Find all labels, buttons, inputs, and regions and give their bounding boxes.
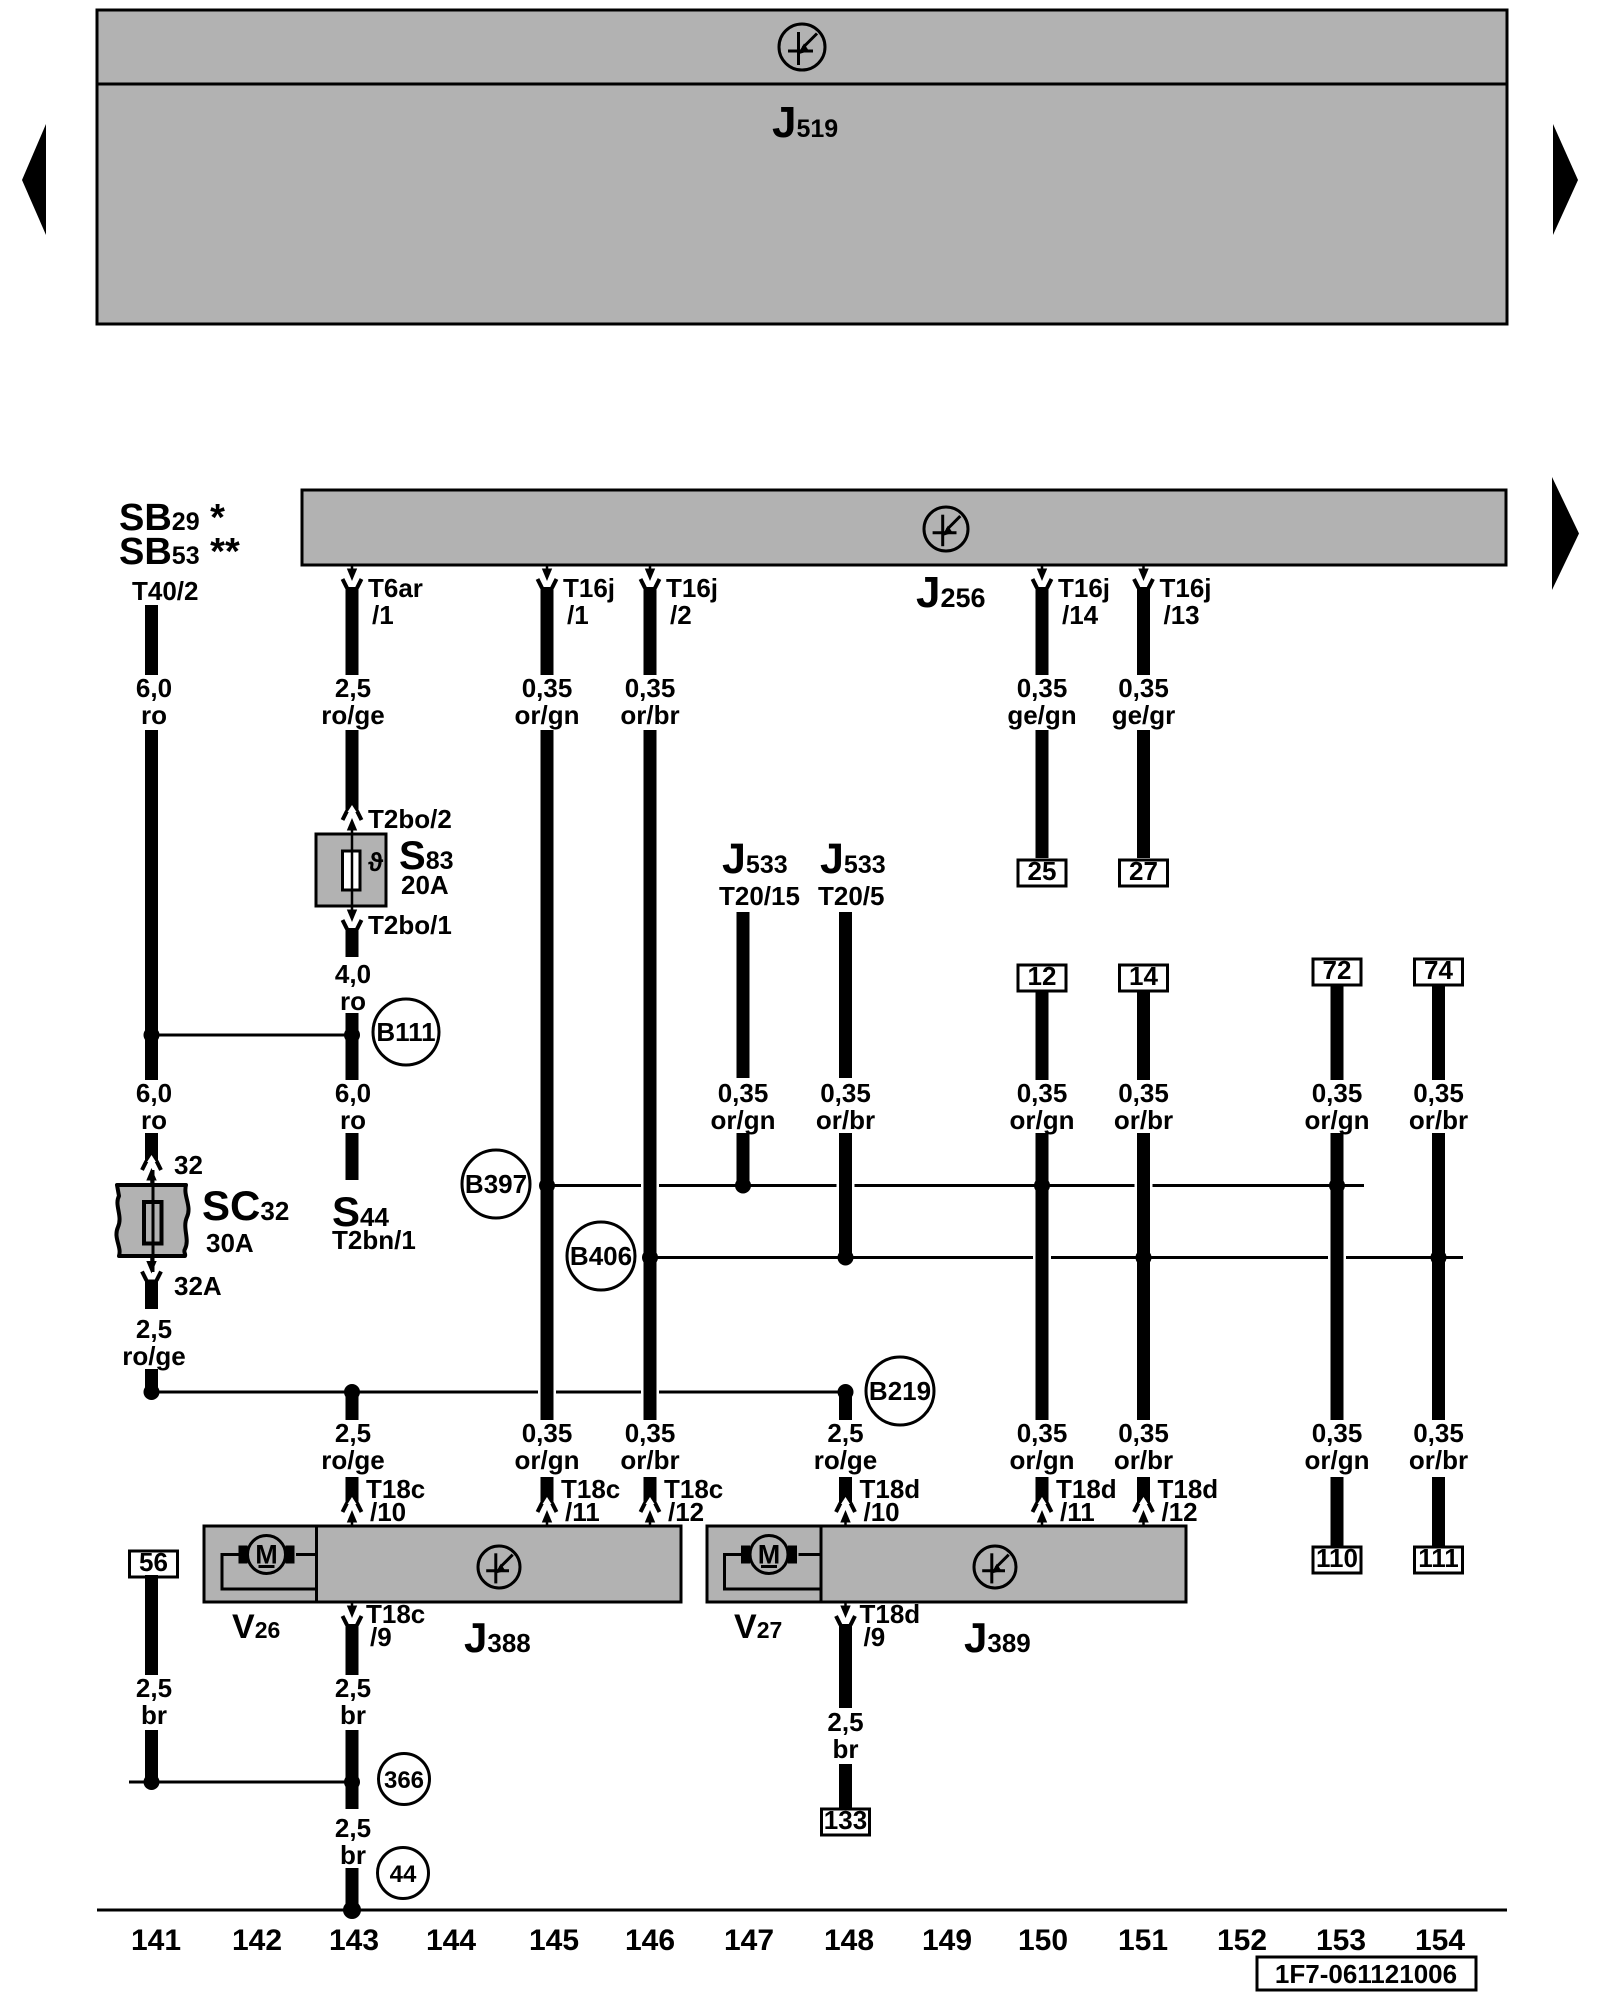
svg-text:/1: /1 xyxy=(567,600,589,630)
wire link to B111 xyxy=(152,1034,353,1037)
svg-text:149: 149 xyxy=(922,1924,972,1957)
wire 0,35 or/br long to J388 xyxy=(644,730,657,1420)
svg-text:/14: /14 xyxy=(1062,600,1099,630)
svg-text:0,35: 0,35 xyxy=(718,1078,769,1108)
svg-text:4,0: 4,0 xyxy=(335,959,371,989)
connector T18c/12 at J388 xyxy=(641,1497,660,1526)
junction on B406 at 74 wire xyxy=(1431,1250,1447,1266)
svg-text:/13: /13 xyxy=(1164,600,1200,630)
wire 0,35 or/br from T16j/2 xyxy=(644,587,657,675)
svg-text:ge/gr: ge/gr xyxy=(1112,700,1176,730)
control unit J519 box xyxy=(97,10,1507,324)
svg-text:/9: /9 xyxy=(370,1622,392,1652)
svg-text:0,35: 0,35 xyxy=(1413,1418,1464,1448)
svg-text:br: br xyxy=(340,1700,366,1730)
connector T6ar/1 at J256 xyxy=(343,565,362,594)
svg-text:146: 146 xyxy=(625,1924,675,1957)
svg-text:/10: /10 xyxy=(370,1497,406,1527)
junction on B406 at or/br wire xyxy=(1136,1250,1152,1266)
svg-text:J256: J256 xyxy=(916,568,986,617)
wire 2,5 ro/ge from T6ar/1 xyxy=(346,587,359,675)
connector T16j/2 at J256 xyxy=(641,565,660,594)
wire link B406 (or/br) xyxy=(650,1256,1033,1259)
connector 32 at SC32 xyxy=(142,1155,161,1184)
junction on B219 right xyxy=(838,1384,854,1400)
svg-text:br: br xyxy=(340,1840,366,1870)
control unit J256 box xyxy=(302,490,1506,565)
connector T18c/9 at J388 xyxy=(343,1602,362,1631)
wire or/br from terminal 14 xyxy=(1137,991,1150,1080)
wire 2,5 ro/ge to S83 xyxy=(346,730,359,812)
connector T16j/1 at J256 xyxy=(538,565,557,594)
wire or/br from terminal 74 xyxy=(1432,984,1445,1080)
svg-text:ro/ge: ro/ge xyxy=(321,700,385,730)
svg-text:or/br: or/br xyxy=(1114,1105,1173,1135)
svg-text:or/br: or/br xyxy=(620,700,679,730)
junction on 366 line right xyxy=(344,1774,360,1790)
svg-text:2,5: 2,5 xyxy=(136,1673,172,1703)
terminal box 72 xyxy=(1313,955,1361,985)
svg-text:ro: ro xyxy=(141,1105,167,1135)
internal connection symbol in J519 xyxy=(779,24,825,70)
svg-text:0,35: 0,35 xyxy=(1118,1418,1169,1448)
svg-text:0,35: 0,35 xyxy=(522,673,573,703)
page arrow right middle xyxy=(1552,477,1579,590)
wire or/br into terminal 111 xyxy=(1432,1477,1445,1547)
svg-text:or/gn: or/gn xyxy=(711,1105,776,1135)
svg-text:ro: ro xyxy=(340,986,366,1016)
svg-text:/12: /12 xyxy=(668,1497,704,1527)
motor V26 symbol xyxy=(239,1536,295,1574)
svg-text:T16j: T16j xyxy=(1160,573,1212,603)
svg-text:/11: /11 xyxy=(1060,1497,1095,1527)
svg-text:V27: V27 xyxy=(734,1608,782,1646)
svg-text:141: 141 xyxy=(131,1924,181,1957)
svg-text:2,5: 2,5 xyxy=(335,1813,371,1843)
svg-text:/11: /11 xyxy=(565,1497,600,1527)
svg-text:72: 72 xyxy=(1323,955,1352,985)
terminal box 14 xyxy=(1120,961,1168,991)
internal connection symbol in J388 xyxy=(478,1546,520,1588)
wire or/br through B406 to J389 xyxy=(1137,1133,1150,1420)
junction on B219 left xyxy=(144,1384,160,1400)
wire 0,35 ge/gr from T16j/13 xyxy=(1137,587,1150,675)
wire 2,5 ro/ge from B219 xyxy=(346,1392,359,1420)
svg-text:/10: /10 xyxy=(864,1497,900,1527)
junction node on B111 line left xyxy=(144,1027,160,1043)
svg-text:153: 153 xyxy=(1316,1924,1366,1957)
wire stub below SC32 xyxy=(145,1280,158,1310)
wire link B397 (or/gn) xyxy=(547,1184,641,1187)
svg-text:br: br xyxy=(833,1734,859,1764)
svg-text:25: 25 xyxy=(1028,856,1057,886)
svg-text:ro/ge: ro/ge xyxy=(814,1445,878,1475)
svg-text:0,35: 0,35 xyxy=(1413,1078,1464,1108)
wire 0,35 or/gn from T16j/1 xyxy=(541,587,554,675)
svg-text:56: 56 xyxy=(139,1547,168,1577)
wire or/gn from terminal 72 xyxy=(1331,984,1344,1080)
svg-text:0,35: 0,35 xyxy=(1017,1418,1068,1448)
wire 6,0 ro from T40/2 upper xyxy=(145,605,158,675)
svg-text:6,0: 6,0 xyxy=(136,1078,172,1108)
wire 0,35 or/gn long to J388 xyxy=(541,730,554,1420)
svg-text:133: 133 xyxy=(824,1805,867,1835)
connector T2bo/1 at S83 xyxy=(343,906,362,935)
svg-text:/9: /9 xyxy=(864,1622,886,1652)
svg-text:T16j: T16j xyxy=(666,573,718,603)
svg-text:0,35: 0,35 xyxy=(1017,673,1068,703)
wire 2,5 br below 56 xyxy=(145,1575,158,1675)
svg-text:J388: J388 xyxy=(464,1614,531,1661)
connector 32A at SC32 xyxy=(142,1258,161,1287)
ground node label 366 xyxy=(379,1754,430,1805)
junction on B219 middle xyxy=(344,1384,360,1400)
wire or/gn to B397 xyxy=(737,1133,750,1186)
svg-text:44: 44 xyxy=(390,1861,417,1888)
connector T18d/11 at J389 xyxy=(1033,1497,1052,1526)
connector T18d/12 at J389 xyxy=(1134,1497,1153,1526)
wire or/gn through B397 to 110 xyxy=(1331,1133,1344,1420)
svg-text:0,35: 0,35 xyxy=(1017,1078,1068,1108)
svg-text:144: 144 xyxy=(426,1924,476,1957)
wire or/br to B406 xyxy=(839,1133,852,1258)
svg-text:T6ar: T6ar xyxy=(368,573,423,603)
connector T18d/9 at J389 xyxy=(836,1602,855,1631)
terminal box 12 xyxy=(1018,961,1066,991)
junction on B397 at T20/15 wire xyxy=(735,1178,751,1194)
svg-text:14: 14 xyxy=(1129,961,1158,991)
svg-text:27: 27 xyxy=(1129,856,1158,886)
svg-text:32A: 32A xyxy=(174,1271,222,1301)
svg-text:T2bn/1: T2bn/1 xyxy=(332,1225,416,1255)
svg-text:or/gn: or/gn xyxy=(515,700,580,730)
svg-text:ro/ge: ro/ge xyxy=(321,1445,385,1475)
motor control unit box V26/J388 xyxy=(204,1526,681,1602)
svg-text:SC32: SC32 xyxy=(202,1182,289,1229)
wire stub below S83 xyxy=(346,928,359,957)
terminal box 25 xyxy=(1018,856,1066,886)
svg-text:110: 110 xyxy=(1316,1543,1358,1573)
svg-text:0,35: 0,35 xyxy=(1312,1078,1363,1108)
svg-text:or/gn: or/gn xyxy=(1305,1445,1370,1475)
terminal box 133 xyxy=(822,1805,870,1835)
wire 2,5 br below J389 xyxy=(839,1624,852,1708)
svg-text:2,5: 2,5 xyxy=(335,1673,371,1703)
svg-text:or/gn: or/gn xyxy=(515,1445,580,1475)
svg-text:/1: /1 xyxy=(372,600,394,630)
svg-text:1F7-061121006: 1F7-061121006 xyxy=(1275,1959,1457,1989)
svg-text:or/gn: or/gn xyxy=(1010,1105,1075,1135)
junction on B406 at T20/5 wire xyxy=(838,1250,854,1266)
divider V27/J389 xyxy=(820,1526,823,1602)
wire ge/gn to terminal 25 xyxy=(1036,730,1049,858)
svg-text:0,35: 0,35 xyxy=(1312,1418,1363,1448)
svg-text:or/br: or/br xyxy=(1114,1445,1173,1475)
connector T16j/14 at J256 xyxy=(1033,565,1052,594)
svg-text:T2bo/1: T2bo/1 xyxy=(368,910,452,940)
svg-text:J389: J389 xyxy=(964,1614,1031,1661)
connector T2bo/2 at S83 xyxy=(343,805,362,834)
svg-text:2,5: 2,5 xyxy=(827,1418,863,1448)
motor V27 symbol xyxy=(741,1536,797,1574)
svg-text:ro: ro xyxy=(340,1105,366,1135)
svg-text:148: 148 xyxy=(824,1924,874,1957)
wire 0,35 ge/gn from T16j/14 xyxy=(1036,587,1049,675)
svg-text:/2: /2 xyxy=(670,600,692,630)
svg-text:br: br xyxy=(141,1700,167,1730)
wire 2,5 br to 133 xyxy=(839,1764,852,1809)
wire ge/gr to terminal 27 xyxy=(1137,730,1150,858)
wire 2,5 br through 366 xyxy=(346,1730,359,1809)
svg-text:0,35: 0,35 xyxy=(522,1418,573,1448)
connector T18c/10 at J388 xyxy=(343,1497,362,1526)
wire 6,0 ro through B111 junction xyxy=(346,1013,359,1080)
svg-text:or/br: or/br xyxy=(816,1105,875,1135)
svg-text:2,5: 2,5 xyxy=(335,673,371,703)
motor loop wire V27 xyxy=(725,1555,822,1590)
svg-text:J533: J533 xyxy=(722,835,788,883)
svg-text:150: 150 xyxy=(1018,1924,1068,1957)
connector T16j/13 at J256 xyxy=(1134,565,1153,594)
svg-text:0,35: 0,35 xyxy=(1118,1078,1169,1108)
svg-text:152: 152 xyxy=(1217,1924,1267,1957)
svg-text:ge/gn: ge/gn xyxy=(1007,700,1076,730)
svg-text:366: 366 xyxy=(384,1767,424,1794)
junction node on B111 line right xyxy=(344,1027,360,1043)
divider V26/J388 xyxy=(315,1526,318,1602)
svg-text:B111: B111 xyxy=(376,1017,435,1047)
svg-text:0,35: 0,35 xyxy=(1118,673,1169,703)
junction on B406 at T16j/2 wire xyxy=(642,1250,658,1266)
ground junction 44 on bottom rail xyxy=(343,1901,361,1919)
svg-text:B406: B406 xyxy=(570,1241,632,1271)
wire 2,5 br to ground 44 xyxy=(346,1868,359,1910)
svg-text:30A: 30A xyxy=(206,1228,254,1258)
svg-text:32: 32 xyxy=(174,1150,203,1180)
svg-text:2,5: 2,5 xyxy=(827,1707,863,1737)
svg-text:143: 143 xyxy=(329,1924,379,1957)
bottom rail line xyxy=(97,1909,1507,1912)
wire or/br into J388 xyxy=(644,1477,657,1504)
wire link B219 (ro/ge) xyxy=(152,1391,539,1394)
fuse S83 20A xyxy=(316,834,386,906)
svg-text:T20/5: T20/5 xyxy=(818,881,885,911)
terminal box 110 xyxy=(1313,1543,1361,1573)
terminal box 111 xyxy=(1415,1543,1463,1573)
svg-text:or/br: or/br xyxy=(620,1445,679,1475)
terminal box 74 xyxy=(1415,955,1463,985)
internal connection symbol in J389 xyxy=(974,1546,1016,1588)
wire 2,5 br to 366 line xyxy=(145,1730,158,1782)
svg-text:T2bo/2: T2bo/2 xyxy=(368,804,452,834)
svg-text:ro: ro xyxy=(141,700,167,730)
wire 6,0 ro below junction xyxy=(145,730,158,1080)
wire 6,0 ro to SC32 xyxy=(145,1133,158,1162)
junction on B397 at 72 wire xyxy=(1329,1178,1345,1194)
svg-text:6,0: 6,0 xyxy=(136,673,172,703)
ground link line 366 xyxy=(129,1781,352,1784)
svg-text:ϑ: ϑ xyxy=(368,847,384,877)
wire or/gn into J388 xyxy=(541,1477,554,1504)
svg-text:151: 151 xyxy=(1118,1924,1168,1957)
svg-text:154: 154 xyxy=(1415,1924,1465,1957)
svg-text:147: 147 xyxy=(724,1924,774,1957)
wire or/gn into terminal 110 xyxy=(1331,1477,1344,1547)
svg-text:111: 111 xyxy=(1418,1543,1459,1573)
svg-text:T16j: T16j xyxy=(1058,573,1110,603)
svg-text:74: 74 xyxy=(1424,955,1453,985)
wire or/br through B406 to 111 xyxy=(1432,1133,1445,1420)
svg-text:T40/2: T40/2 xyxy=(132,576,199,606)
svg-text:B219: B219 xyxy=(869,1376,931,1406)
svg-text:T20/15: T20/15 xyxy=(719,881,800,911)
wire or/br into J389 xyxy=(1137,1477,1150,1504)
motor loop wire V26 xyxy=(222,1555,317,1590)
junction on B397 at or/gn wire xyxy=(1034,1178,1050,1194)
junction on B397 at T16j/1 wire xyxy=(539,1178,555,1194)
svg-text:0,35: 0,35 xyxy=(820,1078,871,1108)
svg-text:or/gn: or/gn xyxy=(1010,1445,1075,1475)
wire or/gn from J533 T20/15 xyxy=(737,912,750,1078)
diagram number box 1F7-061121006 xyxy=(1257,1957,1476,1990)
wire stub S44 xyxy=(346,1133,359,1180)
svg-text:B397: B397 xyxy=(465,1169,527,1199)
wire ro/ge into J389 xyxy=(839,1477,852,1504)
motor control unit box V27/J389 xyxy=(707,1526,1186,1602)
svg-text:0,35: 0,35 xyxy=(625,673,676,703)
node label B219 xyxy=(866,1357,934,1425)
svg-text:SB53 **: SB53 ** xyxy=(119,531,240,573)
wire 2,5 ro/ge into J388 xyxy=(346,1477,359,1504)
svg-text:6,0: 6,0 xyxy=(335,1078,371,1108)
svg-text:T16j: T16j xyxy=(563,573,615,603)
svg-text:V26: V26 xyxy=(232,1608,280,1646)
svg-text:2,5: 2,5 xyxy=(335,1418,371,1448)
page arrow right top xyxy=(1553,124,1578,235)
svg-text:142: 142 xyxy=(232,1924,282,1957)
junction on 366 line left xyxy=(144,1774,160,1790)
svg-text:145: 145 xyxy=(529,1924,579,1957)
connector T18c/11 at J388 xyxy=(538,1497,557,1526)
svg-text:or/br: or/br xyxy=(1409,1105,1468,1135)
node label B397 xyxy=(462,1150,530,1218)
svg-text:2,5: 2,5 xyxy=(136,1314,172,1344)
svg-text:or/gn: or/gn xyxy=(1305,1105,1370,1135)
wire or/gn through B397 to J389 xyxy=(1036,1133,1049,1420)
svg-text:or/br: or/br xyxy=(1409,1445,1468,1475)
node label B406 xyxy=(567,1222,635,1290)
node label B111 xyxy=(373,999,439,1065)
svg-text:12: 12 xyxy=(1028,961,1057,991)
page arrow left xyxy=(22,124,46,235)
terminal box 56 xyxy=(130,1547,178,1577)
wire or/gn from terminal 12 xyxy=(1036,991,1049,1080)
svg-text:J533: J533 xyxy=(820,835,886,883)
wire or/gn into J389 xyxy=(1036,1477,1049,1504)
wire or/br from J533 T20/5 xyxy=(839,912,852,1078)
svg-text:ro/ge: ro/ge xyxy=(122,1341,186,1371)
svg-text:20A: 20A xyxy=(401,870,449,900)
internal connection symbol in J256 xyxy=(924,507,968,551)
svg-text:/12: /12 xyxy=(1162,1497,1198,1527)
terminal box 27 xyxy=(1120,856,1168,886)
svg-text:0,35: 0,35 xyxy=(625,1418,676,1448)
connector T18d/10 at J389 xyxy=(836,1497,855,1526)
ground node label 44 xyxy=(378,1848,429,1899)
fuse SC32 30A xyxy=(116,1170,188,1272)
wire 2,5 ro/ge from B219 right xyxy=(839,1392,852,1420)
wire 2,5 ro/ge to B219 xyxy=(145,1369,158,1392)
wire 2,5 br below J388 xyxy=(346,1624,359,1675)
